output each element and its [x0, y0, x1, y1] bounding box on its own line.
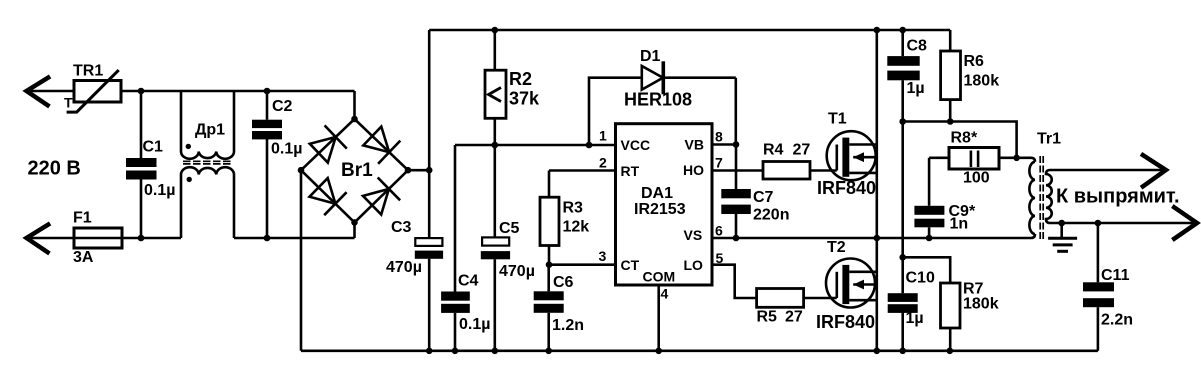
node C5 rail	[492, 348, 499, 355]
wire LO route	[712, 265, 757, 298]
capacitor C10	[888, 270, 935, 328]
svg-text:R6: R6	[964, 53, 985, 70]
node C2 top	[264, 88, 271, 95]
svg-text:T1: T1	[828, 111, 847, 128]
node C3 rail	[426, 348, 433, 355]
wire RT line	[549, 169, 616, 172]
wire COM pin4	[657, 285, 660, 351]
svg-text:1: 1	[599, 128, 607, 144]
node R2 rail	[492, 27, 499, 34]
wire bridge top feed	[353, 91, 356, 119]
svg-text:1µ: 1µ	[906, 310, 924, 327]
svg-text:Br1: Br1	[341, 160, 373, 181]
svg-text:VCC: VCC	[621, 137, 651, 153]
node C10 rail	[899, 348, 906, 355]
wire R6 branch	[949, 30, 952, 51]
capacitor C9*	[914, 203, 976, 233]
svg-text:TR1: TR1	[73, 63, 103, 80]
svg-text:T2: T2	[827, 239, 846, 256]
svg-text:1.2n: 1.2n	[552, 317, 584, 334]
wire VCC line	[455, 144, 616, 147]
wire C1 branch	[140, 91, 143, 158]
node bridge bottom	[351, 219, 358, 226]
wire R3 bottom	[548, 246, 551, 265]
svg-text:R3: R3	[563, 200, 584, 217]
svg-text:27: 27	[793, 142, 811, 159]
svg-text:5: 5	[716, 250, 724, 266]
wire T1 drain-source vertical	[875, 30, 878, 238]
wire R5 to gate	[804, 297, 837, 300]
arrow output bottom	[1174, 207, 1197, 238]
svg-text:4: 4	[661, 286, 669, 302]
bridge Br1	[301, 119, 408, 222]
ground	[1048, 238, 1077, 251]
wire R2 top	[493, 30, 496, 70]
node C3 top	[426, 167, 433, 174]
node VCC R2 C5	[492, 142, 499, 149]
transformer Tr1	[1029, 156, 1051, 240]
svg-text:R4: R4	[763, 142, 784, 159]
op-amp U1 IC DA1 IR2153 box	[599, 124, 724, 302]
svg-text:6: 6	[715, 223, 723, 239]
svg-text:7: 7	[715, 155, 723, 171]
wire R4 to gate	[810, 169, 837, 172]
wire C5 branch	[493, 145, 496, 237]
svg-text:C1: C1	[143, 139, 164, 156]
resistor R6	[941, 51, 1000, 100]
wire HO line	[712, 169, 763, 172]
svg-text:CT: CT	[621, 257, 640, 273]
svg-text:HER108: HER108	[624, 90, 692, 110]
resistor R2	[485, 69, 540, 118]
wire T2 drain-source vertical	[875, 238, 878, 351]
wire bridge plus to C3	[408, 169, 429, 172]
node C11 tap	[1095, 220, 1102, 227]
node VS C7	[733, 235, 740, 242]
svg-text:LO: LO	[684, 257, 704, 273]
capacitor C4	[441, 273, 490, 334]
svg-text:470µ: 470µ	[499, 263, 535, 280]
svg-text:R5: R5	[757, 309, 778, 326]
wire bridge bottom feed	[353, 222, 356, 238]
svg-text:RT: RT	[621, 163, 640, 179]
transistor Q1 T1 IRF840	[817, 111, 877, 199]
diode Br1 lower-left	[310, 178, 336, 204]
svg-text:C11: C11	[1101, 267, 1130, 284]
wire top input live	[27, 90, 75, 93]
svg-text:2: 2	[599, 155, 607, 171]
svg-text:C7: C7	[753, 189, 774, 206]
svg-text:12k: 12k	[563, 219, 590, 236]
wire bottom input neutral	[27, 237, 182, 240]
wire R2 bottom	[493, 118, 496, 145]
svg-text:C2: C2	[272, 98, 293, 115]
wire C6 branch	[547, 265, 550, 292]
svg-text:IRF840: IRF840	[817, 178, 876, 198]
wire C7 vertical	[735, 145, 738, 190]
capacitor C6	[534, 274, 584, 334]
wire C11 branch	[1097, 223, 1100, 282]
diode Br1 upper-left	[310, 137, 336, 163]
wire R8 leads	[929, 157, 949, 160]
node A R6	[947, 118, 954, 125]
choke Dr1	[181, 91, 234, 238]
node C8 rail	[899, 27, 906, 34]
wire bridge minus down	[300, 170, 303, 351]
capacitor C5 electrolytic	[481, 220, 535, 280]
node C1 top	[138, 88, 145, 95]
node VB D1 C7	[733, 141, 740, 148]
node C2 bottom	[264, 235, 271, 242]
svg-text:C5: C5	[499, 220, 520, 237]
svg-text:C10: C10	[906, 270, 935, 287]
node COM rail	[655, 348, 662, 355]
wire top rail	[429, 29, 950, 32]
node T2 source rail	[874, 348, 881, 355]
arrow input top	[27, 78, 1198, 253]
svg-text:C4: C4	[458, 273, 479, 290]
arrow output top	[1143, 155, 1166, 186]
svg-text:D1: D1	[640, 48, 661, 65]
svg-text:C3: C3	[391, 219, 412, 236]
svg-text:R8*: R8*	[951, 130, 978, 147]
wire bottom rail	[301, 349, 1098, 352]
svg-text:VS: VS	[684, 227, 703, 243]
wire VB pin8	[712, 143, 736, 146]
svg-text:180k: 180k	[963, 296, 999, 313]
primary winding	[1029, 162, 1035, 234]
svg-text:F1: F1	[73, 210, 92, 227]
wire C3 vertical	[428, 30, 431, 238]
wire node A line	[903, 122, 1017, 158]
svg-text:HO: HO	[683, 162, 704, 178]
node C1 bottom	[138, 235, 145, 242]
svg-text:IRF840: IRF840	[816, 312, 875, 332]
svg-text:0.1µ: 0.1µ	[459, 316, 490, 333]
diode D1	[624, 48, 692, 110]
transistor Q2 T2 IRF840	[816, 239, 877, 332]
wire secondary top lead	[1050, 169, 1166, 172]
node CT R3 C6	[546, 261, 553, 268]
svg-text:220n: 220n	[753, 207, 789, 224]
node bridge right	[405, 167, 412, 174]
svg-text:R2: R2	[509, 69, 532, 89]
svg-text:0.1µ: 0.1µ	[144, 182, 175, 199]
svg-text:Др1: Др1	[195, 122, 225, 139]
capacitor C2	[252, 98, 302, 158]
svg-text:3: 3	[599, 248, 607, 264]
resistor R7	[941, 281, 999, 329]
wire C8 C10 vertical	[901, 30, 904, 56]
node B R7	[899, 254, 906, 261]
svg-text:37k: 37k	[509, 89, 540, 109]
wire C9 branch	[928, 158, 931, 206]
capacitor C8	[887, 38, 927, 98]
wire R3 top	[548, 171, 551, 198]
node bridge top	[351, 116, 358, 123]
capacitor C3 electrolytic	[386, 219, 443, 276]
svg-text:2.2n: 2.2n	[1101, 312, 1133, 329]
node R8 primary	[1013, 155, 1020, 162]
wire primary top lead	[1017, 158, 1035, 162]
svg-text:470µ: 470µ	[386, 259, 422, 276]
svg-text:T: T	[64, 95, 73, 111]
fuse F1	[73, 210, 122, 267]
wire D1 branch	[589, 78, 642, 145]
node VS C9	[926, 235, 933, 242]
secondary winding	[1046, 170, 1052, 223]
node R7 rail	[947, 348, 954, 355]
node VCC D1	[586, 142, 593, 149]
capacitor C11	[1083, 267, 1133, 329]
node A C8	[899, 118, 906, 125]
svg-text:220 В: 220 В	[28, 158, 81, 180]
wire ground stem	[1060, 223, 1063, 238]
svg-text:COM: COM	[643, 269, 676, 285]
svg-text:0.1µ: 0.1µ	[271, 141, 302, 158]
svg-text:180k: 180k	[964, 73, 1000, 90]
resistor R8*	[949, 130, 999, 187]
resistor R3	[540, 197, 589, 245]
node C6 rail	[545, 348, 552, 355]
svg-text:IR2153: IR2153	[634, 201, 686, 218]
wire secondary bottom lead	[1050, 222, 1197, 225]
svg-text:3A: 3A	[73, 249, 94, 266]
svg-text:27: 27	[785, 309, 803, 326]
node VS T1 T2	[874, 235, 881, 242]
svg-text:К выпрямит.: К выпрямит.	[1056, 186, 1180, 208]
node bridge left	[298, 167, 305, 174]
svg-text:Tr1: Tr1	[1037, 131, 1061, 148]
wire VS line	[712, 234, 1035, 238]
svg-text:100: 100	[963, 170, 990, 187]
svg-text:1µ: 1µ	[907, 80, 925, 97]
svg-text:8: 8	[715, 129, 723, 145]
node ground tap	[1058, 220, 1065, 227]
resistor R5	[757, 289, 804, 326]
diode Br1 upper-right	[363, 127, 389, 153]
svg-text:C6: C6	[553, 274, 574, 291]
wire C4 branch	[454, 145, 457, 292]
wire C2 branch	[266, 91, 269, 120]
svg-text:1n: 1n	[950, 216, 969, 233]
svg-text:C8: C8	[907, 38, 928, 55]
svg-text:VB: VB	[685, 137, 704, 153]
node C4 rail	[452, 348, 459, 355]
diode Br1 lower-right	[363, 189, 389, 215]
arrow input bottom	[27, 225, 49, 253]
thermistor TR1	[64, 63, 121, 113]
core	[1040, 156, 1043, 240]
wire CT line	[549, 263, 616, 266]
resistor R4	[763, 142, 810, 180]
capacitor C1	[126, 139, 175, 200]
svg-text:DA1: DA1	[641, 185, 673, 202]
wire node B to R7	[903, 257, 951, 283]
node T1 drain rail	[874, 27, 881, 34]
capacitor C7	[721, 189, 789, 224]
